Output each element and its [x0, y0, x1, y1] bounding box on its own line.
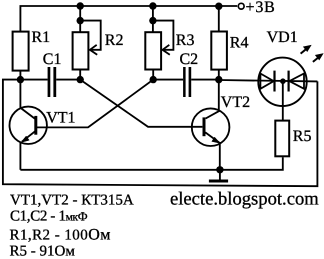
wire R4 bottom stub	[218, 71, 220, 80]
node rail dot at R3	[149, 2, 156, 9]
svg-text:R3: R3	[176, 32, 195, 49]
wire R2 top riser	[79, 6, 81, 32]
svg-text:R2: R2	[105, 32, 124, 49]
svg-text:R1,R2 - 100Ом: R1,R2 - 100Ом	[10, 226, 111, 243]
node R2 bottom dot	[77, 76, 84, 83]
svg-text:C1: C1	[43, 51, 62, 68]
LED emission arrow 1	[301, 45, 311, 53]
svg-text:R4: R4	[230, 35, 249, 52]
wire R3 wiper with arrow	[153, 21, 174, 50]
power terminal +3V open circle	[238, 3, 244, 9]
node ground rail dot	[216, 166, 223, 173]
LED VD1	[258, 58, 306, 106]
svg-text:C2: C2	[180, 51, 199, 68]
svg-text:+3В: +3В	[246, 0, 276, 16]
node VT1 collector dot	[17, 76, 24, 83]
capacitor C2	[183, 67, 186, 97]
resistor R4	[211, 32, 227, 70]
LED emission arrow 2	[313, 54, 323, 62]
svg-text:electe.blogspot.com: electe.blogspot.com	[170, 189, 319, 210]
wire R2 bottom stub	[79, 70, 81, 80]
wire emitter ground rail	[20, 157, 282, 170]
wire R3 bottom stub	[152, 70, 154, 80]
potentiometer R2	[73, 32, 89, 69]
node rail dot at R4	[215, 2, 222, 9]
wire C2 right plate to R4 node	[191, 79, 219, 81]
svg-text:VT1: VT1	[46, 109, 75, 126]
wire collector loop: node line left, left edge, bottom edge, right edge to LED anode	[3, 80, 318, 187]
wire LED cathode to R5	[282, 81, 284, 120]
wire R4 node to LED anodes (through LED)	[219, 80, 318, 81]
svg-text:R1: R1	[32, 29, 51, 46]
wire R2 wiper with arrow	[80, 21, 101, 50]
wire R3 node to C2 left plate	[153, 79, 183, 81]
wire R4 top riser	[218, 6, 220, 30]
node R3 bottom dot	[150, 76, 157, 83]
resistor R5	[275, 121, 289, 157]
wire R3 top riser	[152, 6, 154, 32]
node R4 / VT2 collector dot	[215, 76, 222, 83]
ground symbol	[219, 170, 221, 180]
transistor VT2	[192, 80, 230, 170]
wire cross-coupling R2 node to VT2 base	[80, 80, 202, 127]
node R3 wiper branch dot	[149, 17, 156, 24]
wire cross-coupling R3 node to VT1 base	[37, 80, 153, 128]
wire top power rail	[20, 6, 237, 32]
svg-text:VT1,VT2 - КТ315А: VT1,VT2 - КТ315А	[10, 192, 134, 208]
potentiometer R3	[145, 32, 161, 69]
resistor R1	[13, 32, 29, 71]
wire C1 right plate to R2 node	[56, 79, 80, 81]
wire R1 bottom stub	[19, 71, 21, 80]
capacitor C1	[48, 67, 51, 97]
svg-text:R5 - 91Ом: R5 - 91Ом	[10, 243, 76, 259]
svg-text:VD1: VD1	[267, 29, 298, 46]
transistor VT1	[10, 80, 47, 170]
svg-text:VT2: VT2	[221, 94, 250, 111]
node rail dot at R2	[77, 2, 84, 9]
svg-text:R5: R5	[293, 128, 312, 145]
node R2 wiper branch dot	[77, 17, 84, 24]
svg-text:C1,C2 - 1мкФ: C1,C2 - 1мкФ	[10, 208, 88, 224]
